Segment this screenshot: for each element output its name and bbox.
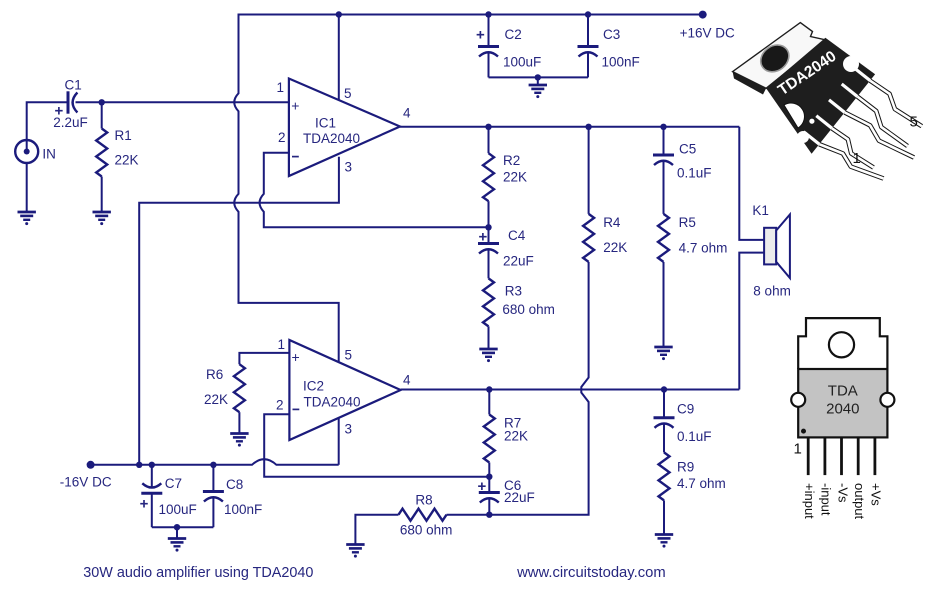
svg-text:680 ohm: 680 ohm — [502, 302, 555, 317]
svg-text:+: + — [479, 229, 488, 246]
ground R9 — [655, 533, 673, 536]
svg-text:4: 4 — [403, 105, 411, 120]
svg-text:8 ohm: 8 ohm — [753, 284, 791, 299]
resistor R1 22K — [101, 102, 103, 128]
svg-text:1: 1 — [277, 80, 285, 95]
node riser junction — [136, 462, 142, 468]
wire left supply vertical to IC2 pin5 (with hops) — [234, 14, 338, 363]
ground R1 — [93, 211, 111, 214]
svg-text:100uF: 100uF — [503, 55, 541, 70]
node rail-C2 junction — [485, 11, 491, 17]
svg-text:R5: R5 — [679, 215, 696, 230]
capacitor C5 0.1uF — [663, 127, 665, 155]
svg-text:1: 1 — [278, 337, 286, 352]
svg-text:2.2uF: 2.2uF — [53, 115, 88, 130]
svg-text:C4: C4 — [508, 228, 526, 243]
svg-text:C8: C8 — [226, 477, 243, 492]
svg-text:+: + — [476, 27, 485, 44]
svg-text:2: 2 — [278, 130, 286, 145]
svg-text:-input: -input — [819, 483, 834, 516]
node C2C3 ground junction — [535, 74, 541, 80]
wire IC1 -input loop — [260, 153, 489, 228]
svg-text:5: 5 — [345, 348, 353, 363]
svg-text:C1: C1 — [65, 77, 82, 92]
svg-text:output: output — [852, 483, 867, 520]
svg-text:TDA: TDA — [828, 383, 858, 400]
ground R5 — [654, 346, 672, 349]
capacitor C4 22uF — [488, 227, 490, 243]
svg-text:22K: 22K — [603, 240, 627, 255]
ground IN — [18, 211, 36, 214]
wire C7/C8 bottom — [152, 526, 214, 528]
wire IN to C1 — [27, 102, 68, 152]
svg-text:22K: 22K — [204, 392, 228, 407]
svg-text:+: + — [291, 98, 299, 114]
resistor R5 4.7 ohm — [658, 214, 669, 262]
svg-text:R4: R4 — [603, 215, 621, 230]
svg-text:R9: R9 — [677, 460, 694, 475]
resistor R3 680 ohm — [483, 278, 494, 326]
op-amp IC1 TDA2040 — [289, 79, 400, 177]
capacitor C7 100uF — [151, 465, 153, 488]
wire -16V riser to IC1 pin3 — [139, 157, 339, 465]
wire IC2 output rail — [401, 389, 740, 391]
svg-text:R2: R2 — [503, 153, 520, 168]
wire IC2 -input loop — [264, 414, 489, 477]
node IC2out-C9 junction — [661, 386, 667, 392]
resistor R2 22K — [488, 127, 490, 153]
node C7C8 ground junction — [174, 524, 180, 530]
svg-text:TDA2040: TDA2040 — [303, 131, 360, 146]
svg-text:100nF: 100nF — [602, 55, 640, 70]
IN source connector — [15, 140, 38, 163]
svg-text:C5: C5 — [679, 142, 696, 157]
svg-text:0.1uF: 0.1uF — [677, 429, 712, 444]
capacitor C9 0.1uF — [663, 390, 665, 418]
svg-text:22K: 22K — [504, 428, 528, 443]
node IC1out-R4 junction — [585, 124, 591, 130]
svg-text:+16V DC: +16V DC — [680, 25, 735, 40]
svg-text:+input: +input — [802, 483, 817, 519]
node rail-C3 junction — [585, 11, 591, 17]
svg-text:IC1: IC1 — [315, 115, 336, 130]
wire -16V rail (hop over pin2 wire) — [91, 459, 339, 465]
ground R8 — [346, 543, 364, 546]
svg-text:+: + — [140, 496, 149, 513]
svg-text:22K: 22K — [503, 170, 527, 185]
node R2/C4/feedback junction — [485, 224, 491, 230]
svg-text:22K: 22K — [115, 153, 139, 168]
ground R6 — [230, 432, 248, 435]
resistor R7 22K — [488, 390, 490, 415]
svg-text:3: 3 — [345, 422, 353, 437]
ground C2/C3 — [529, 84, 547, 87]
svg-text:R3: R3 — [505, 283, 522, 298]
capacitor C8 100nF — [212, 465, 214, 492]
wire C2/C3 bottom — [489, 76, 589, 78]
node rail-C8 junction — [210, 462, 216, 468]
svg-text:+Vs: +Vs — [869, 483, 884, 506]
node rail-C7 junction — [149, 462, 155, 468]
svg-text:4.7 ohm: 4.7 ohm — [677, 476, 726, 491]
svg-text:R1: R1 — [115, 128, 132, 143]
svg-text:IC2: IC2 — [303, 379, 324, 394]
speaker K1 — [764, 228, 776, 265]
resistor R8 680 ohm — [447, 514, 490, 516]
svg-text:3: 3 — [345, 160, 353, 175]
svg-text:-Vs: -Vs — [835, 483, 850, 503]
node IC1out-R2 junction — [485, 124, 491, 130]
svg-text:22uF: 22uF — [504, 490, 535, 505]
svg-text:0.1uF: 0.1uF — [677, 165, 712, 180]
wire K1 bottom to IC2 out — [739, 253, 764, 390]
capacitor C3 100nF — [587, 15, 589, 47]
node IC1out-C5 junction — [660, 124, 666, 130]
wire IC1 output rail — [400, 126, 739, 128]
svg-text:22uF: 22uF — [503, 253, 534, 268]
node IC2out-R7 junction — [486, 386, 492, 392]
svg-text:2040: 2040 — [826, 401, 859, 418]
svg-text:4.7 ohm: 4.7 ohm — [679, 240, 728, 255]
TDA2040 package 3D illustration — [733, 23, 826, 95]
svg-text:-16V DC: -16V DC — [60, 475, 112, 490]
wire IC2 pin3 to -16V rail — [338, 418, 340, 465]
svg-text:2: 2 — [276, 398, 284, 413]
wire +16V top rail — [239, 14, 703, 16]
svg-text:C3: C3 — [603, 27, 620, 42]
resistor R6 22K — [234, 364, 245, 412]
package body — [766, 38, 875, 154]
svg-text:+: + — [292, 349, 300, 365]
svg-text:1: 1 — [794, 441, 802, 458]
resistor R9 4.7 ohm — [659, 452, 670, 500]
svg-text:C9: C9 — [677, 402, 694, 417]
op-amp IC2 TDA2040 — [289, 340, 400, 440]
node rail-IC1pin5 junction — [336, 11, 342, 17]
node +16V DC terminal — [699, 11, 707, 19]
svg-text:4: 4 — [403, 373, 411, 388]
svg-text:30W audio amplifier using TDA2: 30W audio amplifier using TDA2040 — [83, 565, 313, 581]
pinout legs — [807, 437, 810, 475]
capacitor C6 22uF — [488, 477, 490, 493]
capacitor C1 2.2uF — [67, 91, 70, 113]
wire C1 to IC1 +input — [76, 101, 289, 103]
node -16V terminal — [87, 461, 95, 469]
svg-text:1: 1 — [853, 150, 861, 167]
svg-text:K1: K1 — [752, 203, 769, 218]
node R7/C6/feedback junction — [486, 474, 492, 480]
wire IC1 pin5 to rail — [338, 15, 340, 101]
svg-text:5: 5 — [344, 86, 352, 101]
svg-text:5: 5 — [910, 114, 918, 131]
wire IC1 out to K1 top — [739, 127, 764, 240]
svg-text:C2: C2 — [505, 27, 522, 42]
svg-text:680 ohm: 680 ohm — [400, 523, 453, 538]
capacitor C2 100uF — [488, 15, 490, 47]
node C6/R8/R4 junction — [486, 512, 492, 518]
svg-text:IN: IN — [42, 147, 56, 162]
svg-text:TDA2040: TDA2040 — [304, 394, 361, 409]
TDA2040 pinout diagram — [791, 318, 894, 437]
resistor R4 22K — [588, 127, 590, 214]
svg-text:R6: R6 — [206, 367, 223, 382]
wire IC2 +input to R6 — [239, 353, 289, 364]
ground R3 — [479, 348, 497, 351]
svg-text:C7: C7 — [165, 476, 182, 491]
node C1/R1 junction — [99, 99, 105, 105]
svg-text:100uF: 100uF — [159, 502, 197, 517]
svg-text:R8: R8 — [415, 493, 432, 508]
wire IN to ground — [26, 163, 28, 213]
ground C7/C8 — [168, 537, 186, 540]
package legs — [819, 81, 922, 179]
svg-text:www.circuitstoday.com: www.circuitstoday.com — [516, 565, 666, 581]
svg-text:100nF: 100nF — [224, 502, 262, 517]
svg-text:+: + — [478, 478, 487, 495]
